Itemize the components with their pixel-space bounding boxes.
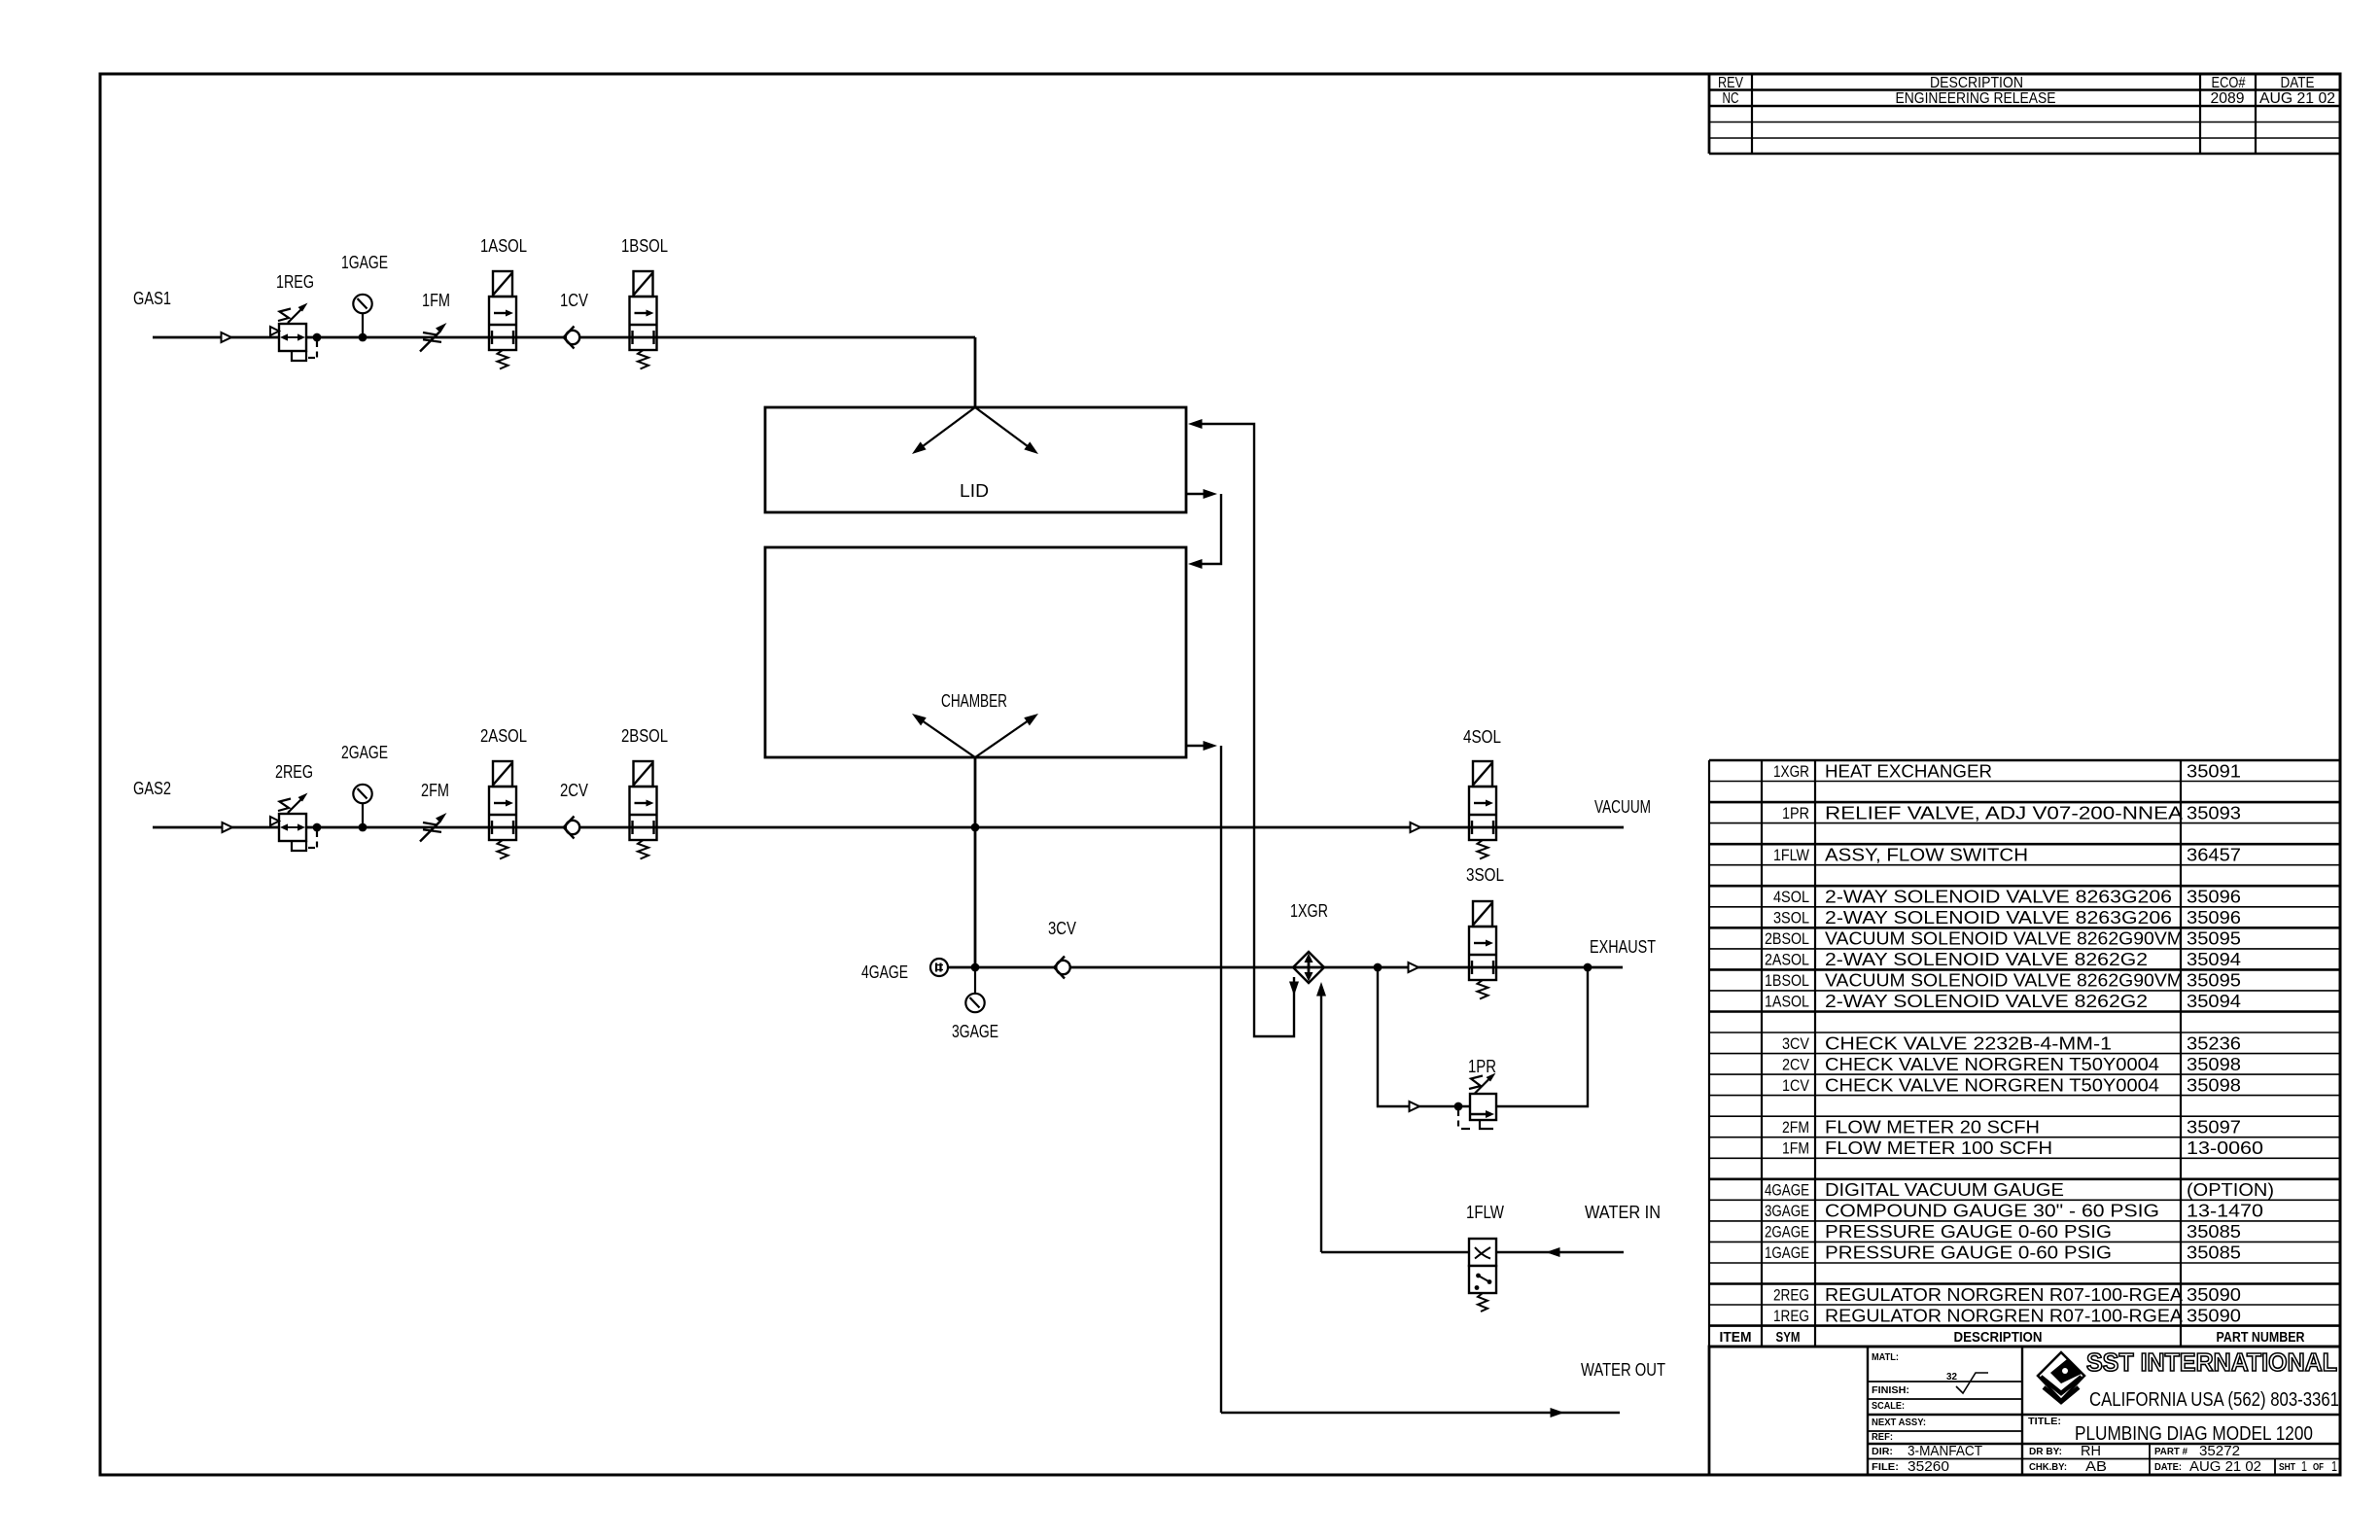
svg-text:35095: 35095 (2187, 970, 2241, 991)
svg-text:1GAGE: 1GAGE (341, 253, 388, 272)
svg-text:PART NUMBER: PART NUMBER (2217, 1330, 2305, 1346)
heat exchanger 1XGR (1293, 952, 1324, 983)
svg-text:32: 32 (1946, 1372, 1957, 1382)
svg-text:3CV: 3CV (1782, 1035, 1809, 1053)
svg-text:35272: 35272 (2199, 1443, 2240, 1459)
svg-text:DESCRIPTION: DESCRIPTION (1954, 1330, 2043, 1346)
svg-text:3SOL: 3SOL (1773, 910, 1809, 927)
svg-text:PLUMBING DIAG MODEL 1200: PLUMBING DIAG MODEL 1200 (2075, 1422, 2313, 1445)
svg-text:MATL:: MATL: (1872, 1352, 1899, 1363)
flow arrow before 4SOL (1411, 822, 1421, 832)
svg-text:TITLE:: TITLE: (2028, 1417, 2061, 1427)
GAS1 supply line (153, 336, 975, 339)
svg-text:CALIFORNIA USA (562) 803-3361: CALIFORNIA USA (562) 803-3361 (2089, 1389, 2339, 1411)
svg-text:CHECK VALVE NORGREN T50Y0004: CHECK VALVE NORGREN T50Y0004 (1825, 1074, 2159, 1095)
solenoid valve 1ASOL (489, 271, 516, 369)
svg-text:2REG: 2REG (1773, 1286, 1809, 1304)
svg-text:VACUUM SOLENOID VALVE 8262G90V: VACUUM SOLENOID VALVE 8262G90VM (1825, 928, 2183, 949)
svg-text:3GAGE: 3GAGE (1765, 1203, 1809, 1220)
parts list table (1709, 760, 2340, 1347)
svg-text:2-WAY SOLENOID VALVE 8263G206: 2-WAY SOLENOID VALVE 8263G206 (1825, 887, 2172, 907)
junction exhaust branch (1374, 963, 1382, 972)
title block (1709, 1347, 2340, 1475)
svg-text:1CV: 1CV (1782, 1077, 1809, 1095)
solenoid valve 2ASOL (489, 761, 516, 859)
svg-text:FLOW METER 20 SCFH: FLOW METER 20 SCFH (1825, 1117, 2040, 1137)
svg-text:VACUUM: VACUUM (1594, 797, 1651, 817)
svg-text:35098: 35098 (2187, 1054, 2241, 1074)
flow meter 1FM (420, 323, 447, 352)
solenoid valve 1BSOL (630, 271, 657, 369)
svg-text:GAS1: GAS1 (133, 289, 171, 308)
flow meter 2FM (420, 813, 447, 842)
svg-text:35090: 35090 (2187, 1305, 2241, 1325)
svg-text:PRESSURE GAUGE 0-60 PSIG: PRESSURE GAUGE 0-60 PSIG (1825, 1242, 2112, 1263)
svg-text:AB: AB (2085, 1458, 2107, 1475)
GAS2 vacuum manifold line (153, 826, 1624, 829)
svg-text:3SOL: 3SOL (1466, 865, 1504, 885)
svg-text:35236: 35236 (2187, 1032, 2241, 1053)
svg-text:PRESSURE GAUGE 0-60 PSIG: PRESSURE GAUGE 0-60 PSIG (1825, 1221, 2112, 1242)
svg-text:DESCRIPTION: DESCRIPTION (1930, 75, 2023, 91)
svg-text:35096: 35096 (2187, 907, 2241, 927)
svg-text:2ASOL: 2ASOL (1765, 952, 1809, 969)
svg-text:2BSOL: 2BSOL (621, 726, 668, 746)
svg-text:SCALE:: SCALE: (1872, 1401, 1905, 1412)
junction 3GAGE tap (971, 963, 980, 972)
svg-text:(OPTION): (OPTION) (2187, 1179, 2274, 1200)
wire 1PR bypass left leg (1378, 967, 1470, 1106)
svg-text:2CV: 2CV (1782, 1056, 1809, 1073)
svg-text:2BSOL: 2BSOL (1765, 930, 1809, 948)
junction 1PR pilot (1454, 1102, 1463, 1111)
svg-text:35085: 35085 (2187, 1221, 2241, 1242)
svg-text:35094: 35094 (2187, 949, 2241, 969)
svg-text:1REG: 1REG (276, 272, 314, 292)
svg-text:1XGR: 1XGR (1290, 901, 1328, 921)
svg-text:4GAGE: 4GAGE (861, 962, 908, 982)
svg-text:35260: 35260 (1907, 1458, 1949, 1475)
svg-text:REV: REV (1718, 75, 1744, 91)
svg-text:2GAGE: 2GAGE (1765, 1224, 1809, 1242)
svg-text:FINISH:: FINISH: (1872, 1385, 1909, 1396)
svg-text:GAS2: GAS2 (133, 779, 171, 798)
junction chamber feed (971, 823, 980, 832)
svg-text:2-WAY SOLENOID VALVE 8262G2: 2-WAY SOLENOID VALVE 8262G2 (1825, 991, 2148, 1011)
CHAMBER inlet spray arrow right (975, 717, 1033, 758)
svg-text:1CV: 1CV (560, 291, 588, 310)
wire water riser to 1XGR (1320, 994, 1322, 1252)
svg-text:ENGINEERING RELEASE: ENGINEERING RELEASE (1896, 90, 2056, 107)
svg-text:35090: 35090 (2187, 1284, 2241, 1305)
svg-text:AUG 21 02: AUG 21 02 (2189, 1458, 2261, 1475)
svg-text:1BSOL: 1BSOL (621, 236, 668, 256)
svg-text:FLOW METER 100 SCFH: FLOW METER 100 SCFH (1825, 1137, 2052, 1158)
svg-text:EXHAUST: EXHAUST (1590, 937, 1656, 957)
svg-text:SYM: SYM (1776, 1330, 1801, 1346)
svg-text:WATER IN: WATER IN (1585, 1203, 1661, 1222)
svg-text:1FLW: 1FLW (1773, 847, 1809, 864)
svg-text:COMPOUND GAUGE 30" - 60 PSIG: COMPOUND GAUGE 30" - 60 PSIG (1825, 1201, 2159, 1221)
svg-text:WATER OUT: WATER OUT (1581, 1360, 1665, 1380)
svg-text:2ASOL: 2ASOL (480, 726, 527, 746)
svg-text:DATE: DATE (2281, 75, 2315, 91)
svg-text:4SOL: 4SOL (1463, 727, 1501, 747)
regulator 1REG (270, 303, 317, 362)
svg-text:35091: 35091 (2187, 760, 2241, 781)
svg-text:2REG: 2REG (275, 762, 313, 782)
svg-text:NC: NC (1723, 90, 1739, 107)
solenoid valve 2BSOL (630, 761, 657, 859)
digital gauge 4GAGE (930, 959, 948, 976)
svg-text:SHT: SHT (2279, 1462, 2296, 1473)
svg-text:35095: 35095 (2187, 928, 2241, 949)
svg-text:DATE:: DATE: (2154, 1462, 2182, 1473)
LID inlet spray arrow left (917, 407, 975, 451)
CHAMBER box (765, 547, 1186, 757)
svg-text:REF:: REF: (1872, 1432, 1893, 1443)
flow arrow GAS2 (223, 822, 233, 832)
check valve 1CV (564, 327, 580, 349)
wire CHAMBER jacket out to water out (1186, 745, 1209, 747)
gauge 2GAGE (353, 785, 371, 832)
svg-text:2GAGE: 2GAGE (341, 743, 388, 762)
svg-text:3GAGE: 3GAGE (952, 1022, 998, 1041)
svg-text:1PR: 1PR (1782, 805, 1809, 822)
svg-text:NEXT ASSY:: NEXT ASSY: (1872, 1417, 1926, 1428)
relief valve 1PR (1458, 1073, 1496, 1130)
svg-text:ASSY, FLOW SWITCH: ASSY, FLOW SWITCH (1825, 844, 2028, 864)
solenoid valve 4SOL (1469, 761, 1496, 859)
svg-text:4GAGE: 4GAGE (1765, 1182, 1809, 1200)
junction 1PR return (1584, 963, 1592, 972)
svg-text:1REG: 1REG (1773, 1308, 1809, 1325)
svg-text:1XGR: 1XGR (1773, 763, 1809, 781)
svg-text:36457: 36457 (2187, 844, 2241, 864)
svg-text:2-WAY SOLENOID VALVE 8263G206: 2-WAY SOLENOID VALVE 8263G206 (1825, 907, 2172, 927)
svg-text:2FM: 2FM (1782, 1119, 1809, 1137)
svg-text:1FM: 1FM (422, 291, 450, 310)
svg-text:35098: 35098 (2187, 1074, 2241, 1095)
svg-text:SST INTERNATIONAL: SST INTERNATIONAL (2086, 1347, 2337, 1377)
svg-text:REGULATOR NORGREN R07-100-RGEA: REGULATOR NORGREN R07-100-RGEA (1825, 1284, 2184, 1305)
svg-text:1FM: 1FM (1782, 1140, 1809, 1158)
check valve 2CV (564, 817, 580, 839)
svg-text:4SOL: 4SOL (1773, 889, 1809, 906)
solenoid valve 3SOL (1469, 901, 1496, 999)
svg-text:2089: 2089 (2211, 90, 2245, 107)
LID box (765, 407, 1186, 512)
flow arrow before 3SOL (1409, 962, 1419, 972)
svg-text:CHAMBER: CHAMBER (941, 691, 1007, 711)
svg-text:1BSOL: 1BSOL (1765, 972, 1809, 990)
svg-text:35094: 35094 (2187, 991, 2241, 1011)
svg-text:35097: 35097 (2187, 1117, 2241, 1137)
flow arrow before 1PR (1410, 1102, 1420, 1111)
CHAMBER inlet spray arrow left (917, 717, 975, 758)
svg-text:ITEM: ITEM (1720, 1330, 1752, 1346)
svg-text:HEAT EXCHANGER: HEAT EXCHANGER (1825, 760, 1992, 781)
svg-text:2-WAY SOLENOID VALVE 8262G2: 2-WAY SOLENOID VALVE 8262G2 (1825, 949, 2148, 969)
svg-text:2CV: 2CV (560, 781, 588, 800)
svg-text:CHK.BY:: CHK.BY: (2029, 1462, 2067, 1473)
svg-text:AUG 21 02: AUG 21 02 (2259, 90, 2335, 107)
junction after 2REG (313, 823, 322, 832)
wire LID water out to CHAMBER jacket (1186, 493, 1209, 495)
flow switch 1FLW (1469, 1239, 1496, 1312)
svg-text:3CV: 3CV (1048, 919, 1076, 938)
svg-text:1PR: 1PR (1468, 1057, 1496, 1076)
svg-text:FILE:: FILE: (1872, 1462, 1899, 1473)
svg-text:2FM: 2FM (421, 781, 449, 800)
svg-text:1: 1 (2331, 1458, 2337, 1475)
LID inlet spray arrow right (975, 407, 1033, 451)
wire 1PR bypass right leg (1496, 967, 1588, 1106)
flow arrow GAS1 (222, 332, 232, 342)
svg-text:DIGITAL VACUUM GAUGE: DIGITAL VACUUM GAUGE (1825, 1179, 2064, 1200)
junction after 1REG (313, 333, 322, 342)
svg-text:35085: 35085 (2187, 1242, 2241, 1263)
wire 1XGR coolant out to LID (1198, 424, 1294, 1036)
svg-text:13-1470: 13-1470 (2187, 1201, 2263, 1221)
svg-text:35096: 35096 (2187, 887, 2241, 907)
gauge 1GAGE (353, 295, 371, 342)
svg-text:OF: OF (2313, 1462, 2324, 1473)
wire chamber bottom to manifold (974, 757, 977, 967)
svg-text:CHECK VALVE NORGREN T50Y0004: CHECK VALVE NORGREN T50Y0004 (1825, 1054, 2159, 1074)
svg-text:PART #: PART # (2154, 1447, 2187, 1457)
svg-text:1: 1 (2301, 1458, 2307, 1475)
gauge 3GAGE (965, 967, 984, 1012)
svg-text:VACUUM SOLENOID VALVE 8262G90V: VACUUM SOLENOID VALVE 8262G90VM (1825, 970, 2183, 991)
svg-text:ECO#: ECO# (2212, 75, 2246, 91)
svg-text:DIR:: DIR: (1872, 1447, 1893, 1457)
water out line (1221, 1412, 1620, 1414)
svg-text:1ASOL: 1ASOL (1765, 994, 1809, 1011)
svg-text:RH: RH (2081, 1443, 2101, 1459)
SST logo (2038, 1352, 2084, 1402)
svg-text:DR BY:: DR BY: (2029, 1447, 2062, 1457)
svg-text:35093: 35093 (2187, 802, 2241, 822)
svg-text:1FLW: 1FLW (1466, 1203, 1504, 1222)
svg-text:CHECK VALVE 2232B-4-MM-1: CHECK VALVE 2232B-4-MM-1 (1825, 1032, 2112, 1053)
check valve 3CV (1054, 957, 1070, 979)
regulator 2REG (270, 793, 317, 852)
svg-text:13-0060: 13-0060 (2187, 1137, 2263, 1158)
svg-text:REGULATOR NORGREN R07-100-RGEA: REGULATOR NORGREN R07-100-RGEA (1825, 1305, 2184, 1325)
svg-text:1ASOL: 1ASOL (480, 236, 527, 256)
svg-text:LID: LID (960, 481, 989, 501)
svg-text:RELIEF VALVE, ADJ V07-200-NNEA: RELIEF VALVE, ADJ V07-200-NNEA (1825, 802, 2184, 822)
revision table (1709, 74, 2340, 154)
wire GAS1 drop to LID (974, 337, 977, 407)
svg-text:1GAGE: 1GAGE (1765, 1244, 1809, 1262)
water in line (1321, 1251, 1624, 1253)
svg-text:3-MANFACT: 3-MANFACT (1907, 1443, 1982, 1459)
exhaust line (948, 966, 1623, 969)
